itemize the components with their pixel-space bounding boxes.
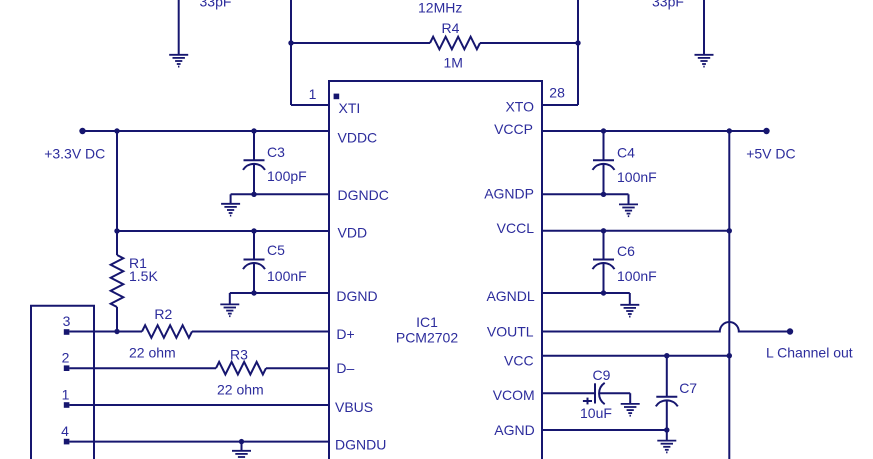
svg-text:3: 3 <box>63 313 71 329</box>
resistor R3 value label 22 ohm <box>217 382 264 398</box>
pin label D+ <box>336 326 354 342</box>
wire XTI net vertical from crystal <box>290 0 292 105</box>
net label L Channel out <box>766 345 853 361</box>
pin number 3 <box>63 313 71 329</box>
svg-text:100pF: 100pF <box>267 168 307 184</box>
svg-text:1: 1 <box>309 86 317 102</box>
wire AGNDL rail <box>542 292 630 294</box>
svg-text:C7: C7 <box>679 380 697 396</box>
pin number 28 <box>549 85 565 101</box>
ground <box>232 451 251 459</box>
svg-text:L Channel out: L Channel out <box>766 345 853 361</box>
svg-text:VDD: VDD <box>338 225 368 241</box>
node junction C5 bottom <box>251 290 256 295</box>
pin label AGNDP <box>484 186 534 202</box>
node L channel out terminal <box>787 328 793 334</box>
pin label DGNDC <box>338 187 389 203</box>
wire XTO net vertical from crystal <box>577 0 579 105</box>
node junction R1 top <box>114 128 119 133</box>
svg-text:R3: R3 <box>230 347 248 363</box>
svg-text:PCM2702: PCM2702 <box>396 330 458 346</box>
wire VBUS <box>69 404 329 406</box>
wire AGND ground stub <box>666 430 668 441</box>
svg-text:C9: C9 <box>593 367 611 383</box>
pin label VCCL <box>497 220 535 236</box>
pin label XTO <box>505 99 534 115</box>
svg-text:1: 1 <box>62 387 70 403</box>
node junction C5 top <box>251 228 256 233</box>
wire D- left segment <box>69 367 216 369</box>
svg-text:C6: C6 <box>617 243 635 259</box>
wire +5V vertical bus <box>728 131 730 459</box>
pin 1 marker square <box>334 94 340 100</box>
svg-text:C4: C4 <box>617 145 635 161</box>
node junction R1 vertical at VDD <box>114 228 119 233</box>
wire VDDC rail <box>83 130 330 132</box>
capacitor C9 <box>595 383 605 404</box>
svg-text:R4: R4 <box>442 20 460 36</box>
wire AGNDP ground stub <box>628 194 630 204</box>
node junction C3 top <box>251 128 256 133</box>
wire C5 bottom lead <box>253 263 255 293</box>
node junction C6 top <box>601 228 606 233</box>
capacitor C4 ref label <box>617 145 635 161</box>
IC1 ref label <box>416 314 438 330</box>
capacitor C1 value label 33pF <box>200 0 232 9</box>
wire VCOM lead <box>542 392 595 394</box>
svg-text:XTI: XTI <box>339 100 361 116</box>
svg-text:AGNDP: AGNDP <box>484 186 534 202</box>
capacitor C6 ref label <box>617 243 635 259</box>
wire DGNDU <box>69 441 329 443</box>
capacitor C9 ref label <box>593 367 611 383</box>
wire C4 top lead <box>603 131 605 160</box>
wire C5 top lead <box>253 231 255 260</box>
svg-text:VCOM: VCOM <box>493 387 535 403</box>
node junction VCC at +5V vertical <box>727 353 732 358</box>
wire C9 ground stub <box>629 393 631 404</box>
pin label VCC <box>504 353 534 369</box>
wire D+ right segment <box>192 331 329 333</box>
wire DGND ground stub <box>229 293 231 304</box>
wire DGNDU ground stub <box>241 442 243 451</box>
pin label DGND <box>336 288 377 304</box>
wire C9 right lead <box>599 392 630 394</box>
crystal X1 value label 12MHz <box>418 0 462 15</box>
wire XTI pin stub <box>291 104 329 106</box>
svg-text:4: 4 <box>61 423 69 439</box>
svg-text:100nF: 100nF <box>617 169 657 185</box>
IC1 part number label PCM2702 <box>396 330 458 346</box>
capacitor C2 value label 33pF <box>652 0 684 9</box>
svg-text:2: 2 <box>62 350 70 366</box>
node junction C7 bottom <box>664 427 669 432</box>
pin 1 pad <box>64 402 70 408</box>
resistor R1 <box>111 255 124 307</box>
pin 4 pad <box>64 439 70 445</box>
resistor R2 ref label <box>154 306 172 322</box>
pin label AGNDL <box>486 288 534 304</box>
pin number 4 <box>61 423 69 439</box>
svg-text:VBUS: VBUS <box>335 399 373 415</box>
resistor R1 ref label <box>129 255 147 271</box>
svg-text:1M: 1M <box>444 54 463 70</box>
node junction C7 top <box>664 353 669 358</box>
wire XTO pin stub <box>542 104 578 106</box>
wire VDD rail <box>117 230 329 232</box>
svg-text:D+: D+ <box>336 326 354 342</box>
wire VOUTL with hop over +5V vertical <box>542 322 790 332</box>
svg-text:C3: C3 <box>267 144 285 160</box>
capacitor C1 lead wire <box>178 0 180 55</box>
capacitor C2 lead wire <box>703 0 705 55</box>
resistor R2 value label 22 ohm <box>129 345 176 361</box>
connector J1 USB body <box>31 306 94 459</box>
svg-text:DGND: DGND <box>336 288 377 304</box>
wire R1 lower lead <box>116 307 118 332</box>
wire C7 top lead <box>666 356 668 397</box>
node XTO net junction <box>575 40 580 45</box>
svg-text:100nF: 100nF <box>267 268 307 284</box>
svg-text:10uF: 10uF <box>580 405 612 421</box>
wire VCCP rail <box>542 130 767 132</box>
ground <box>619 204 638 216</box>
net label +5V DC <box>746 146 795 162</box>
pin 3 pad <box>64 329 70 335</box>
svg-text:28: 28 <box>549 85 565 101</box>
capacitor C5 <box>243 260 265 270</box>
wire D- right segment <box>266 367 329 369</box>
wire C6 bottom lead <box>603 263 605 293</box>
node XTI net junction <box>288 40 293 45</box>
svg-text:DGNDC: DGNDC <box>338 187 389 203</box>
ground <box>221 204 240 216</box>
wire C6 top lead <box>603 231 605 260</box>
capacitor C3 <box>243 160 265 170</box>
pin label VBUS <box>335 399 373 415</box>
wire C4 bottom lead <box>603 164 605 194</box>
svg-text:22 ohm: 22 ohm <box>129 345 176 361</box>
svg-text:VCCP: VCCP <box>494 121 533 137</box>
capacitor C6 value label 100nF <box>617 268 657 284</box>
node junction C3 bottom <box>251 192 256 197</box>
capacitor C5 value label 100nF <box>267 268 307 284</box>
wire D+ left segment <box>69 331 142 333</box>
resistor R3 ref label <box>230 347 248 363</box>
resistor R3 <box>216 362 266 375</box>
capacitor C7 ref label <box>679 380 697 396</box>
wire R4 left segment <box>291 42 430 44</box>
svg-text:VOUTL: VOUTL <box>487 324 534 340</box>
pin label VCCP <box>494 121 533 137</box>
svg-text:AGNDL: AGNDL <box>486 288 534 304</box>
capacitor C4 <box>593 160 615 170</box>
net label +3.3V DC <box>44 146 105 162</box>
capacitor C9 value label 10uF <box>580 405 612 421</box>
ground <box>620 305 639 317</box>
pin number 2 <box>62 350 70 366</box>
wire DGND rail <box>230 292 329 294</box>
wire R4 right segment <box>480 42 578 44</box>
svg-text:DGNDU: DGNDU <box>335 437 386 453</box>
node junction R1 bottom at D+ <box>114 329 119 334</box>
pin label DGNDU <box>335 437 386 453</box>
wire R1 upper lead <box>116 131 118 255</box>
pin label XTI <box>339 100 361 116</box>
capacitor C3 ref label <box>267 144 285 160</box>
capacitor C4 value label 100nF <box>617 169 657 185</box>
wire DGNDC ground stub <box>230 194 232 204</box>
pin label VOUTL <box>487 324 534 340</box>
node junction C4 top <box>601 128 606 133</box>
capacitor C7 <box>656 397 678 407</box>
node junction C6 bottom <box>601 290 606 295</box>
ground <box>657 441 676 453</box>
pin label VCOM <box>493 387 535 403</box>
wire C7 bottom lead <box>666 401 668 431</box>
op-amp U1 IC1 PCM2702 body <box>329 81 542 459</box>
resistor R1 value label 1.5K <box>129 268 158 284</box>
resistor R4 value label 1M <box>444 54 463 70</box>
capacitor C5 ref label <box>267 242 285 258</box>
svg-text:IC1: IC1 <box>416 314 438 330</box>
svg-text:VCCL: VCCL <box>497 220 535 236</box>
wire C3 top lead <box>253 131 255 160</box>
svg-text:+3.3V DC: +3.3V DC <box>44 146 105 162</box>
wire VCC rail <box>542 355 729 357</box>
svg-text:100nF: 100nF <box>617 268 657 284</box>
pin number 1 <box>309 86 317 102</box>
capacitor C3 value label 100pF <box>267 168 307 184</box>
ground <box>621 404 640 416</box>
svg-text:33pF: 33pF <box>200 0 232 9</box>
wire AGNDL ground stub <box>629 293 631 305</box>
wire DGNDC rail <box>231 193 329 195</box>
svg-text:C5: C5 <box>267 242 285 258</box>
svg-text:1.5K: 1.5K <box>129 268 158 284</box>
capacitor C6 <box>593 260 615 270</box>
resistor R4 <box>430 37 480 50</box>
ground <box>169 55 188 67</box>
ground <box>220 304 239 316</box>
svg-text:33pF: 33pF <box>652 0 684 9</box>
svg-text:XTO: XTO <box>505 99 534 115</box>
wire C3 bottom lead <box>253 164 255 194</box>
svg-text:22 ohm: 22 ohm <box>217 382 264 398</box>
svg-text:VCC: VCC <box>504 353 534 369</box>
pin 2 pad <box>64 365 70 371</box>
node junction +5V vertical <box>727 128 732 133</box>
svg-text:12MHz: 12MHz <box>418 0 462 15</box>
wire VCCL rail <box>542 230 729 232</box>
pin label D&#8211; <box>336 360 354 376</box>
svg-text:D–: D– <box>336 360 354 376</box>
svg-text:R2: R2 <box>154 306 172 322</box>
svg-text:AGND: AGND <box>494 422 534 438</box>
wire AGNDP rail <box>542 193 629 195</box>
pin number 1 <box>62 387 70 403</box>
pin label AGND <box>494 422 534 438</box>
resistor R4 ref label <box>442 20 460 36</box>
node +5V DC terminal <box>763 128 769 134</box>
node +3.3V DC terminal <box>79 128 85 134</box>
node junction DGNDU ground <box>239 439 244 444</box>
svg-text:VDDC: VDDC <box>338 130 378 146</box>
pin label VDD <box>338 225 368 241</box>
ground <box>695 55 714 67</box>
node junction C4 bottom <box>601 192 606 197</box>
wire AGND rail <box>542 429 667 431</box>
pin label VDDC <box>338 130 378 146</box>
svg-text:+5V DC: +5V DC <box>746 146 795 162</box>
resistor R2 <box>142 325 192 338</box>
capacitor C9 polarity plus sign <box>583 398 592 405</box>
node junction VCCL at +5V vertical <box>727 228 732 233</box>
